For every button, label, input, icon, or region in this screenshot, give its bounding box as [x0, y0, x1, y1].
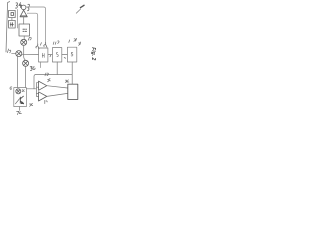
numeral right of box48 top [78, 42, 80, 45]
wire converter bottom lead [19, 107, 21, 111]
box 46 demodulator [52, 48, 61, 62]
wire box40 to mixer M1 [23, 36, 25, 39]
box 44 IF filter [39, 48, 48, 62]
converter dashed box 70 [14, 88, 27, 107]
numeral d left of box48 [64, 58, 65, 59]
crystal bars inside box 38 [10, 23, 13, 27]
numeral 58 near T1 output [47, 79, 50, 82]
mixer M3 circle-X [23, 60, 29, 66]
oscillator circle 30 [21, 5, 26, 10]
arrow curl into box52 right [44, 43, 47, 48]
glyph inside box 48 [71, 52, 73, 56]
wire box46 to box48 [62, 53, 68, 55]
wire triangle to filter box [23, 17, 25, 24]
numeral 16 and input arrow [7, 49, 10, 53]
comparator T1 [39, 81, 47, 90]
wire comparator input vertical [36, 83, 38, 97]
numeral 56 near M3 [30, 67, 35, 71]
numeral 60 below T2 [45, 100, 47, 103]
numeral 18 near M1 [28, 37, 31, 40]
amplifier triangle 36 [20, 10, 27, 17]
numeral between boxes [49, 55, 52, 57]
wire input to mixer M2 [12, 53, 16, 55]
numeral 2 curl right of circle [27, 4, 29, 10]
wire T2 output to box [47, 93, 68, 96]
arrow curl into box52 left [36, 44, 39, 49]
numeral 64 above output box [65, 80, 69, 83]
wire M2 output to box 44 [22, 53, 39, 55]
box 32 (small upper left block) [9, 10, 16, 17]
numeral pair above box44 [40, 43, 41, 46]
wire horizontal mid bus [34, 75, 72, 89]
wire M3 down to converter box [25, 66, 27, 87]
svg-text:Fig. 2: Fig. 2 [90, 47, 96, 60]
wire M2 down to converter box [17, 56, 19, 87]
wire converter to comparators [26, 88, 36, 90]
wire top feedback outer [26, 7, 46, 43]
mixer M2 circle-X [16, 51, 22, 57]
wire box46 bottom down [56, 62, 58, 75]
wire M1 to M3 [24, 45, 26, 60]
numeral 62 below comparators [30, 104, 33, 107]
wire box32 to box38 [11, 18, 13, 21]
oscillator circle inside converter [16, 89, 21, 94]
wire T1 output to box [47, 86, 68, 88]
box 48 decoder [67, 47, 76, 62]
wire box48 bottom down to output box [71, 62, 73, 84]
numeral 34 [15, 3, 21, 9]
box 38 (lower small block with crystal) [9, 20, 16, 28]
transistor inside converter [20, 96, 23, 104]
glyph inside box 46 [56, 52, 58, 56]
mixer M1 circle-X [21, 39, 27, 45]
wire box44 to box46 [48, 54, 52, 56]
filter box 40 [19, 24, 30, 36]
wire vertical right of boxes [17, 10, 19, 29]
numerals above box 48 [69, 38, 77, 42]
numeral 74 below converter [17, 111, 22, 114]
numeral 54 near mid bus [45, 73, 48, 76]
wire top feedback inner [27, 13, 37, 44]
numeral x right of oscillator [22, 90, 24, 92]
wire box44 bottom stub [40, 62, 42, 68]
comparator T2 [39, 92, 47, 101]
wire input lead left [6, 2, 10, 52]
box 32 inner element [11, 13, 14, 16]
Fig. 2 label [90, 47, 96, 60]
reference arrow 10 top right [76, 9, 80, 13]
filter glyph inside box 40 [23, 29, 27, 31]
wire diagonal inside converter [15, 99, 19, 104]
glyph inside box 44 [42, 53, 44, 57]
numeral G left of converter [10, 87, 12, 89]
arrowhead blob [80, 4, 85, 8]
output box 66 [68, 84, 78, 99]
numerals above box 46 [53, 41, 59, 44]
